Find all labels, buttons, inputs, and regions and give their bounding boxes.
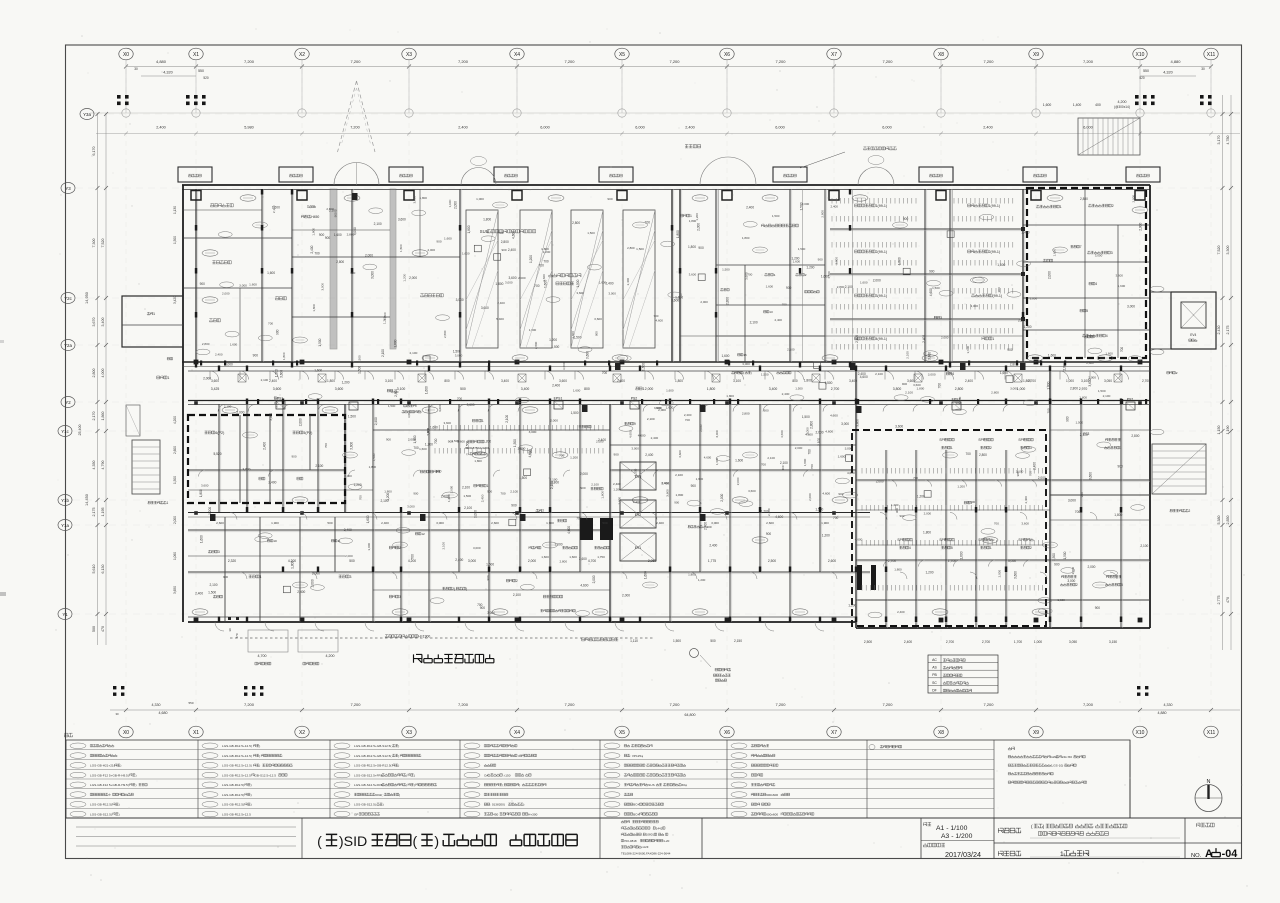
svg-text:): ) [421, 410, 422, 414]
extra small squares [283, 586, 290, 593]
svg-text:1,500: 1,500 [795, 387, 803, 391]
svg-text:1,500: 1,500 [275, 369, 279, 377]
svg-text:1,200: 1,200 [483, 440, 491, 444]
svg-text:4,790: 4,790 [101, 461, 105, 470]
svg-text:2,000: 2,000 [408, 438, 416, 442]
svg-text:1,500: 1,500 [798, 247, 806, 251]
svg-text:3,600: 3,600 [398, 218, 406, 222]
svg-text:700: 700 [782, 303, 787, 307]
entrance canopy dashed triangle [338, 81, 357, 152]
svg-text:2,800: 2,800 [202, 342, 210, 346]
svg-text:X2: X2 [299, 52, 305, 58]
svg-text:3,000: 3,000 [371, 271, 375, 279]
svg-text:EV1: EV1 [635, 546, 642, 550]
svg-text:H=1900: H=1900 [418, 635, 430, 639]
svg-text:): ) [466, 587, 467, 591]
svg-text:470: 470 [101, 626, 105, 632]
svg-text:1,800: 1,800 [384, 490, 392, 494]
svg-text:1,600: 1,600 [462, 252, 470, 256]
svg-text:2,700: 2,700 [1142, 379, 1150, 383]
east annex partitions [1023, 224, 1150, 226]
west stair label [148, 501, 151, 504]
svg-text:1,500: 1,500 [1063, 551, 1067, 559]
svg-text:900: 900 [580, 486, 585, 490]
svg-text:3,600: 3,600 [748, 489, 756, 493]
svg-text:1,600: 1,600 [721, 354, 729, 358]
manhole circle [690, 649, 699, 658]
svg-text:2,100: 2,100 [462, 486, 470, 490]
corridor wall jambs extra [200, 361, 1147, 405]
svg-text:2,800: 2,800 [443, 330, 447, 338]
legend table frame [66, 740, 1130, 818]
svg-text:4,700: 4,700 [258, 654, 267, 658]
svg-text:2,100: 2,100 [374, 222, 382, 226]
svg-text:4,600: 4,600 [822, 492, 830, 496]
entrance door arcs B [461, 168, 479, 186]
svg-text:LGS-GB-R12.5+GB-R12.5(: LGS-GB-R12.5+GB-R12.5( [354, 764, 393, 768]
fence note [385, 635, 388, 638]
svg-text:2,000: 2,000 [1138, 223, 1142, 231]
legend table verticals [197, 740, 199, 818]
entrance door arcs A [334, 163, 357, 186]
svg-text:30: 30 [115, 712, 119, 716]
svg-text:2,400: 2,400 [767, 508, 771, 516]
project name cell [998, 828, 1003, 833]
svg-text:2,430: 2,430 [1217, 326, 1221, 335]
south exterior door arcs [215, 622, 224, 631]
svg-text:2,800: 2,800 [1070, 387, 1078, 391]
svg-text:3,600: 3,600 [927, 352, 931, 360]
svg-text:): ) [399, 793, 400, 797]
svg-text:3,000: 3,000 [1095, 253, 1103, 257]
svg-text:30: 30 [134, 67, 138, 71]
mouse room double walls [718, 189, 720, 362]
svg-text:): ) [434, 834, 439, 850]
svg-text:7: 7 [542, 509, 544, 513]
svg-text:1,600: 1,600 [1000, 371, 1008, 375]
svg-text:550: 550 [198, 69, 204, 73]
svg-text:2,000: 2,000 [580, 472, 588, 476]
svg-text:GB-S12.5+12.5: GB-S12.5+12.5 [255, 773, 277, 777]
svg-text:2,100: 2,100 [505, 415, 509, 423]
svg-text:1,800: 1,800 [327, 379, 335, 383]
area label 中動物飼育エリア [414, 654, 422, 662]
svg-text:520: 520 [203, 76, 209, 80]
svg-text:2,000: 2,000 [736, 477, 740, 485]
svg-text:2,800: 2,800 [742, 412, 750, 416]
svg-text:700: 700 [810, 464, 814, 469]
svg-text:1,500: 1,500 [519, 476, 527, 480]
svg-text:2,400: 2,400 [983, 126, 993, 130]
svg-text:2,500: 2,500 [768, 559, 776, 563]
svg-text:1,800: 1,800 [917, 386, 925, 390]
svg-text:1,600: 1,600 [199, 535, 203, 543]
svg-text:1: 1 [990, 546, 992, 550]
svg-text:1: 1 [1060, 205, 1062, 209]
svg-text:700: 700 [434, 438, 438, 444]
svg-text:2,800: 2,800 [560, 560, 568, 564]
svg-text:1: 1 [167, 501, 169, 505]
svg-text:900: 900 [448, 440, 453, 444]
second dimension line y133 [96, 133, 1240, 135]
svg-text:700: 700 [645, 220, 651, 224]
svg-text:N: N [1207, 779, 1211, 785]
svg-text:): ) [136, 783, 137, 787]
svg-text:700: 700 [576, 516, 582, 520]
svg-text:700: 700 [324, 443, 328, 448]
svg-text:6,000: 6,000 [540, 126, 550, 130]
svg-text:3,600: 3,600 [1021, 521, 1029, 525]
svg-text:1,200: 1,200 [957, 484, 965, 488]
east annex EV4 block [1171, 292, 1216, 349]
svg-text:2,100: 2,100 [875, 372, 883, 376]
svg-text:2,000: 2,000 [700, 300, 708, 304]
svg-text:1,775: 1,775 [708, 559, 716, 563]
svg-text:3,600: 3,600 [457, 439, 465, 443]
svg-text:1: 1 [1120, 446, 1122, 450]
svg-text:7: 7 [1080, 245, 1082, 249]
svg-text:2,400: 2,400 [262, 442, 266, 450]
north compass [1195, 785, 1222, 812]
svg-text:4,680: 4,680 [159, 711, 168, 715]
svg-text:7,200: 7,200 [983, 702, 994, 707]
legend notes box [1129, 740, 1131, 818]
svg-text:2,800: 2,800 [991, 390, 999, 394]
building east exterior wall [1149, 185, 1151, 628]
svg-text:2,100: 2,100 [513, 593, 521, 597]
svg-text:2,400: 2,400 [156, 126, 166, 130]
svg-text:2,800: 2,800 [572, 221, 580, 225]
svg-text:2,400: 2,400 [645, 453, 653, 457]
svg-text:1(99-1): 1(99-1) [876, 204, 888, 208]
svg-text:1,900: 1,900 [546, 521, 554, 525]
svg-text:700: 700 [1029, 471, 1033, 476]
svg-text:4,600: 4,600 [825, 429, 833, 433]
svg-text:2,100: 2,100 [906, 351, 910, 359]
svg-text:): ) [259, 754, 260, 758]
svg-text:X5: X5 [619, 730, 625, 736]
svg-text:1,600: 1,600 [419, 447, 427, 451]
abbreviation legend table [928, 655, 998, 693]
svg-text:1(99-1): 1(99-1) [989, 204, 1001, 208]
svg-text:X1: X1 [193, 52, 199, 58]
svg-text:700: 700 [1075, 510, 1081, 514]
svg-text:7,300: 7,300 [92, 239, 96, 248]
svg-text:64,800: 64,800 [685, 713, 696, 717]
svg-text:800: 800 [792, 379, 798, 383]
svg-text:3,600: 3,600 [855, 419, 859, 427]
svg-text:900: 900 [929, 270, 935, 274]
svg-text:1,200: 1,200 [208, 507, 212, 515]
svg-text:3,000: 3,000 [608, 292, 616, 296]
svg-text:800: 800 [444, 379, 450, 383]
svg-text:4,600: 4,600 [775, 515, 783, 519]
svg-text:H450: H450 [311, 215, 319, 219]
svg-text:Y1b: Y1b [61, 498, 69, 503]
svg-text:2,000: 2,000 [645, 387, 654, 391]
svg-text:1,800: 1,800 [282, 352, 286, 360]
svg-text:t A2F: t A2F [642, 845, 649, 849]
svg-text:3,000: 3,000 [715, 430, 719, 438]
svg-text:60t2(: 60t2( [375, 793, 383, 797]
svg-text:1,800: 1,800 [1047, 381, 1051, 389]
svg-text:2,400: 2,400 [782, 392, 790, 396]
svg-text:14,450: 14,450 [85, 494, 89, 506]
svg-text:2,100: 2,100 [441, 542, 445, 550]
legend col7 corner guard [880, 745, 883, 748]
area boundary dashed A [188, 415, 345, 503]
svg-text:900: 900 [487, 490, 492, 494]
svg-text:1,200: 1,200 [529, 255, 533, 263]
svg-text:12: 12 [421, 532, 425, 536]
svg-text:X7: X7 [831, 730, 837, 736]
svg-text:1,500: 1,500 [551, 345, 559, 349]
svg-text:7,200: 7,200 [1083, 59, 1094, 64]
svg-text:LGS-GB-H21+21(: LGS-GB-H21+21( [90, 764, 116, 768]
svg-text:1,600: 1,600 [366, 515, 370, 523]
room door arcs row2 [218, 405, 225, 412]
svg-text:LGS-GB-R12.5(: LGS-GB-R12.5( [222, 803, 245, 807]
svg-text:1,600: 1,600 [838, 455, 846, 459]
svg-text:1,200: 1,200 [806, 265, 814, 269]
svg-text:3,000: 3,000 [436, 521, 444, 525]
svg-text:900: 900 [786, 286, 792, 290]
svg-text:500: 500 [460, 387, 466, 391]
svg-text:2,000: 2,000 [834, 257, 838, 265]
svg-text:3,600: 3,600 [1089, 472, 1093, 480]
svg-text:500: 500 [349, 559, 355, 563]
svg-text:2,100: 2,100 [905, 390, 913, 394]
svg-text:6,000: 6,000 [882, 126, 892, 130]
svg-text:3,170: 3,170 [1217, 136, 1221, 145]
svg-text:4,320: 4,320 [1163, 71, 1173, 75]
svg-text:X6: X6 [724, 52, 730, 58]
partial wall y538 [188, 529, 610, 531]
north shaft walls hatched [330, 189, 337, 349]
svg-text:3,600: 3,600 [665, 489, 669, 497]
svg-text:900: 900 [1065, 416, 1069, 422]
svg-text:): ) [251, 803, 252, 807]
svg-text:4,600: 4,600 [704, 455, 712, 459]
svg-text:3,400: 3,400 [849, 379, 857, 383]
svg-text:900: 900 [486, 575, 490, 580]
svg-text:10801: 10801 [646, 833, 655, 837]
svg-text:): ) [251, 793, 252, 797]
svg-text:X0: X0 [123, 730, 129, 736]
svg-text:3,600: 3,600 [895, 425, 903, 429]
svg-text:(@300x14): (@300x14) [1114, 105, 1130, 109]
svg-text:AC: AC [932, 658, 937, 662]
drain note [582, 638, 585, 641]
svg-text:1,600: 1,600 [641, 363, 645, 371]
svg-text:3,000: 3,000 [269, 413, 273, 421]
svg-text:1,600: 1,600 [541, 555, 549, 559]
svg-text:LGS-GB-F12 5+GB-R-H9.5(: LGS-GB-F12 5+GB-R-H9.5( [90, 783, 130, 787]
svg-text:2,800: 2,800 [820, 210, 824, 218]
svg-text:4,880: 4,880 [156, 59, 167, 64]
svg-text:)SID: )SID [339, 834, 367, 850]
svg-text:2,000: 2,000 [299, 418, 303, 426]
partial wall y470 center [610, 469, 856, 471]
top sub dimensions near X10 [1140, 75, 1196, 77]
svg-text:EV2: EV2 [635, 513, 642, 517]
svg-text:900: 900 [766, 532, 772, 536]
svg-text:3,600: 3,600 [280, 370, 284, 378]
svg-text:3,000: 3,000 [407, 410, 411, 418]
svg-text:700: 700 [543, 259, 549, 263]
svg-text:4,200: 4,200 [173, 416, 177, 424]
svg-text:3,000: 3,000 [711, 521, 719, 525]
svg-text:1,130: 1,130 [173, 206, 177, 214]
svg-text:2,100: 2,100 [381, 499, 389, 503]
PS EPS boxes [276, 401, 285, 409]
right dimension lines [1222, 95, 1224, 650]
svg-text:2,000: 2,000 [697, 223, 701, 231]
svg-text:1,600: 1,600 [444, 236, 452, 240]
svg-text:1,500: 1,500 [722, 267, 730, 271]
svg-text:3,000: 3,000 [344, 474, 352, 478]
svg-text:BOX: BOX [633, 812, 640, 816]
svg-text:LGS-GB-R12.5+12.5: LGS-GB-R12.5+12.5 [222, 812, 251, 816]
svg-text:1,500: 1,500 [761, 373, 769, 377]
black smoke walls right [857, 565, 862, 590]
svg-text:2,000: 2,000 [428, 248, 436, 252]
svg-text:3,600: 3,600 [242, 467, 250, 471]
svg-text:2,100: 2,100 [308, 205, 316, 209]
svg-text:2,400: 2,400 [685, 126, 695, 130]
svg-text:7,200: 7,200 [1083, 702, 1094, 707]
svg-text:2,100: 2,100 [224, 404, 232, 408]
svg-text:7,200: 7,200 [350, 59, 361, 64]
svg-text:): ) [259, 744, 260, 748]
svg-text:): ) [519, 783, 520, 787]
svg-text:1,600: 1,600 [447, 494, 451, 502]
top right exterior stair [1078, 118, 1140, 155]
svg-text:3,600: 3,600 [562, 362, 566, 370]
machine room equipment racks [466, 210, 498, 348]
svg-text:(: ( [413, 834, 418, 850]
svg-text:2,400: 2,400 [1021, 231, 1029, 235]
svg-text:1,600: 1,600 [430, 425, 438, 429]
svg-text:: 0138200(: : 0138200( [490, 803, 506, 807]
svg-text:500: 500 [92, 626, 96, 632]
svg-text:1,200: 1,200 [342, 381, 350, 385]
svg-text:2,700: 2,700 [1028, 379, 1036, 383]
svg-text:LGS-GB-S12.5+FRB: LGS-GB-S12.5+FRB [354, 783, 383, 787]
svg-text:LGS-GB-R12.5(: LGS-GB-R12.5( [222, 783, 245, 787]
svg-text:5,380: 5,380 [1217, 516, 1221, 525]
svg-text:2,800: 2,800 [347, 232, 355, 236]
svg-text:3,000: 3,000 [239, 283, 247, 287]
svg-text:2,800: 2,800 [979, 453, 987, 457]
svg-text:700: 700 [1120, 347, 1124, 353]
svg-text:2,400: 2,400 [497, 301, 505, 305]
svg-text:1: 1 [487, 484, 489, 488]
room labels south wing [205, 431, 208, 434]
svg-text:1,800: 1,800 [369, 465, 377, 469]
east exterior stair [1152, 444, 1206, 494]
svg-text:LGS-GB-S12.5+FRB: LGS-GB-S12.5+FRB [354, 773, 383, 777]
svg-text:3,400: 3,400 [769, 387, 778, 391]
svg-text:16: 16 [743, 353, 747, 357]
svg-text:3,600: 3,600 [559, 379, 567, 383]
svg-text:X5: X5 [619, 52, 625, 58]
svg-text:1,800: 1,800 [894, 567, 902, 571]
svg-text:7,200: 7,200 [458, 702, 469, 707]
svg-text:900: 900 [333, 212, 337, 217]
svg-text:3,000: 3,000 [845, 447, 853, 451]
svg-text:X11: X11 [1207, 730, 1216, 736]
svg-text:2,400: 2,400 [215, 352, 223, 356]
svg-text:BOX: BOX [633, 803, 640, 807]
svg-text:4,600: 4,600 [847, 471, 855, 475]
svg-text:4,880: 4,880 [1158, 711, 1167, 715]
svg-text:3,425: 3,425 [211, 387, 220, 391]
svg-text:900: 900 [1117, 465, 1123, 469]
svg-text:Y3a: Y3a [83, 112, 91, 117]
svg-text:3,050: 3,050 [1069, 640, 1077, 644]
svg-text:7,200: 7,200 [983, 59, 994, 64]
svg-text:4,600: 4,600 [391, 390, 399, 394]
svg-text:7,200: 7,200 [244, 702, 255, 707]
svg-text:1,700: 1,700 [1014, 640, 1022, 644]
svg-text:4(99-1): 4(99-1) [876, 337, 888, 341]
columns on east annex rows [1021, 227, 1025, 231]
svg-text:): ) [119, 803, 120, 807]
svg-text:2,000: 2,000 [1048, 271, 1052, 279]
svg-text:A1 - 1/100: A1 - 1/100 [936, 825, 968, 832]
signature lines left [76, 826, 296, 828]
south extra horizontal partials [373, 429, 610, 431]
svg-text:2,000: 2,000 [592, 575, 596, 583]
svg-text:PS2: PS2 [1127, 398, 1134, 402]
svg-text:2,100: 2,100 [1080, 433, 1088, 437]
svg-text:7,200: 7,200 [458, 59, 469, 64]
legend title 凡例 [64, 733, 68, 737]
svg-text:6,000: 6,000 [635, 126, 645, 130]
svg-text:2,100: 2,100 [647, 417, 655, 421]
svg-text:2,100: 2,100 [591, 483, 599, 487]
svg-text:900: 900 [502, 248, 507, 252]
svg-text:4,600: 4,600 [855, 538, 863, 542]
svg-text:1,500: 1,500 [1052, 553, 1056, 561]
svg-text:3,000: 3,000 [455, 354, 463, 358]
svg-text:900: 900 [1054, 563, 1060, 567]
svg-text:): ) [383, 803, 384, 807]
svg-text:7,200: 7,200 [350, 126, 360, 130]
svg-text:600x600: 600x600 [766, 812, 778, 816]
svg-text:3,600: 3,600 [201, 484, 209, 488]
svg-text:2,400: 2,400 [297, 590, 305, 594]
svg-text:2,100: 2,100 [410, 351, 418, 355]
svg-text:700: 700 [274, 396, 279, 400]
svg-text:3,000: 3,000 [468, 559, 476, 563]
svg-text:1,200: 1,200 [926, 570, 934, 574]
svg-text:A3 - 1/200: A3 - 1/200 [941, 833, 973, 840]
svg-text:1,800: 1,800 [483, 217, 491, 221]
svg-text:1,500: 1,500 [576, 279, 580, 287]
svg-text:10: 10 [273, 539, 277, 543]
svg-text:2,000: 2,000 [941, 336, 949, 340]
svg-text:1: 1 [167, 376, 169, 380]
svg-text:: VP125φ: : VP125φ [630, 754, 643, 758]
svg-text:1,800: 1,800 [393, 339, 397, 347]
svg-text:2,100: 2,100 [1103, 394, 1111, 398]
svg-text:1,800: 1,800 [311, 228, 315, 236]
svg-text:2,100: 2,100 [817, 438, 821, 446]
svg-text:2,400: 2,400 [381, 521, 389, 525]
svg-text:1,000: 1,000 [1066, 379, 1074, 383]
